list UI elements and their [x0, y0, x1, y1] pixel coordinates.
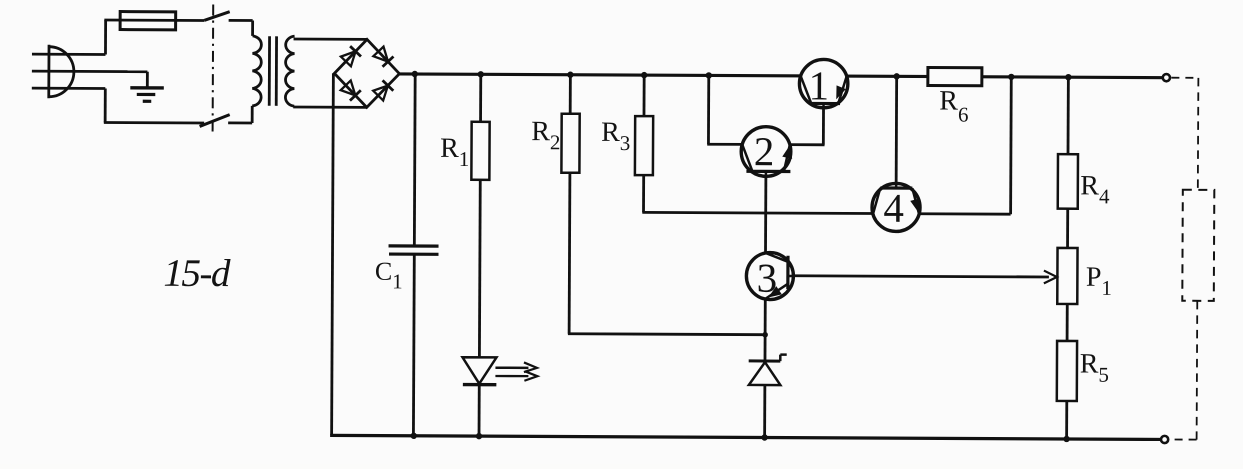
label R3 [601, 117, 630, 155]
transistor Q3 internals [766, 253, 793, 299]
switch mechanical link (dash-dot) [212, 5, 215, 133]
transistor Q4 number [883, 185, 904, 231]
svg-text:1: 1 [808, 62, 829, 108]
potentiometer P1 [1057, 248, 1077, 304]
load resistance (dashed box) [1182, 190, 1214, 301]
wire P1 to R5 [1066, 304, 1069, 341]
node junction R2 wire / T3 emitter [762, 332, 768, 338]
wire R1 top [479, 74, 482, 121]
svg-text:4: 4 [883, 185, 904, 231]
bridge diode D4 (bottom-right side) [373, 80, 393, 100]
node junction R5/bottom bus [1063, 436, 1069, 442]
transistor Q2 body [741, 127, 791, 177]
wire R4 top [1067, 77, 1070, 154]
wire C1 bottom [412, 254, 416, 436]
ground [130, 72, 164, 102]
LED light arrows [495, 362, 537, 381]
terminal output positive [1163, 74, 1170, 81]
zener diode VD [749, 354, 787, 385]
resistor R3 [635, 116, 653, 175]
svg-text:3: 3 [757, 255, 778, 301]
AC mains plug [49, 45, 74, 99]
wire secondary top to bridge [294, 38, 367, 41]
LED D5 [462, 357, 496, 384]
resistor R5 [1057, 341, 1077, 401]
wire R2 top [569, 75, 572, 114]
wire secondary bottom to bridge [293, 106, 366, 109]
transformer primary winding [252, 36, 261, 106]
transistor Q4 internals [873, 184, 919, 213]
transistor Q1 internals [801, 76, 847, 108]
wire dashed to load (top) [1171, 77, 1198, 79]
transistor Q2 number [754, 128, 775, 174]
label C1 [375, 257, 403, 294]
node junction zener/bottom bus [761, 434, 767, 440]
wire R3 top [643, 75, 646, 116]
wire bridge negative to bottom bus [332, 73, 334, 435]
wire Q3 base to potentiometer wiper (arrow) [793, 269, 1057, 283]
bridge diode D1 (left-top side) [341, 46, 361, 66]
transistor Q1 body [799, 59, 848, 108]
label R4 [1080, 170, 1110, 208]
wire plug top to fuse [104, 20, 204, 55]
node junction R3/top bus [641, 72, 647, 78]
label R5 [1080, 349, 1109, 387]
transistor Q3 body [746, 252, 793, 299]
resistor R1 [471, 122, 489, 180]
node junction R4/top bus [1065, 74, 1071, 80]
wire plug bottom prong [32, 87, 105, 90]
switch pole S1a [204, 12, 253, 21]
node junction C1/top bus [412, 71, 418, 77]
label R1 [440, 133, 469, 171]
bridge diode D3 (left-bottom side) [341, 80, 361, 100]
wire top bus to T2 collector [707, 75, 745, 144]
wire C1 top [413, 74, 417, 246]
wire R1 to LED [478, 180, 482, 357]
figure label 15-d [163, 252, 231, 295]
node junction T2 branch/top bus [706, 72, 712, 78]
transistor Q1 number [808, 62, 829, 108]
wire T2 base down to T3 [764, 173, 767, 255]
transformer T1 primary lead top [251, 21, 254, 36]
label R2 [531, 116, 560, 154]
capacitor C1 [389, 246, 439, 254]
wire top positive bus [398, 74, 1165, 78]
node junction R1/top bus [478, 71, 484, 77]
wire T4 emitter to R6 right node [917, 76, 1011, 214]
terminal output negative [1161, 436, 1168, 443]
resistor R2 [561, 114, 579, 173]
wire plug top prong [32, 53, 105, 56]
transformer T1 primary lead bottom [251, 106, 254, 123]
wire plug bottom down [104, 88, 204, 122]
label R6 [939, 85, 968, 126]
wire T2 emitter to T1 base [788, 101, 825, 145]
wire LED to bottom bus [478, 385, 481, 436]
wire R5 to bottom bus [1065, 401, 1068, 439]
transformer core [269, 36, 276, 106]
bridge diode D2 (top-right side) [373, 47, 393, 67]
fuse [120, 12, 176, 30]
switch pole S1b [200, 114, 253, 126]
node junction LED/bottom bus [476, 433, 482, 439]
wire T4 base up to bus [895, 76, 898, 191]
node junction R6 right/top bus [1008, 74, 1014, 80]
wire dashed load vertical top [1197, 78, 1200, 190]
svg-text:15-d: 15-d [163, 252, 231, 295]
wire dashed load vertical bottom [1196, 301, 1199, 440]
wire R2 to T3 emitter node [568, 173, 766, 335]
resistor R4 [1058, 154, 1078, 209]
resistor R6 [928, 68, 982, 86]
wire dashed to load (bottom) [1170, 438, 1197, 440]
transistor Q4 body [872, 183, 920, 231]
wire R3 to transistor 4 collector [642, 175, 873, 213]
node junction T4 base/top bus [893, 73, 899, 79]
label P1 [1086, 262, 1112, 300]
transformer secondary winding [285, 36, 294, 106]
wire zener to bottom bus [763, 385, 766, 437]
wire plug middle prong (to ground) [32, 70, 147, 73]
wire R4 to P1 [1066, 209, 1069, 248]
wire T3 emitter to zener [764, 297, 767, 361]
wire bottom negative bus [330, 435, 1164, 439]
transistor Q2 internals [742, 145, 791, 177]
node junction R2/top bus [567, 72, 573, 78]
svg-text:2: 2 [754, 128, 775, 174]
node junction C1/bottom bus [410, 433, 416, 439]
bridge rectifier diamond [334, 39, 399, 107]
transistor Q3 number [757, 255, 778, 301]
